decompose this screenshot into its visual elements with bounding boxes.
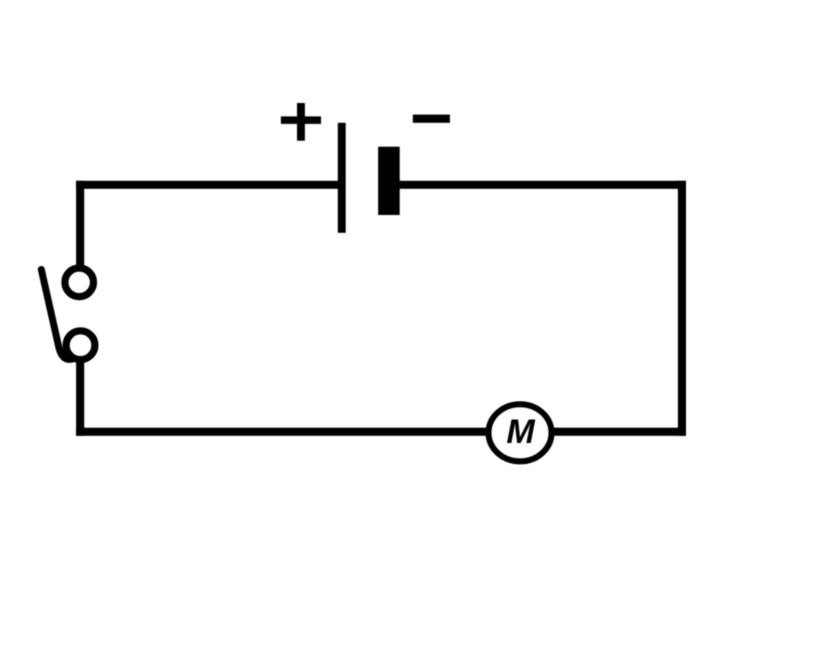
wire top-right horizontal (battery - terminal to right wire) <box>396 181 686 189</box>
switch S1 top contact circle <box>65 268 94 297</box>
battery B1 positive plate (long thin) <box>338 123 346 233</box>
battery label + (plus sign) <box>281 116 321 124</box>
switch S1 lever arm <box>41 270 72 360</box>
wire left vertical upper (to switch top contact) <box>76 181 84 270</box>
svg-text:M: M <box>506 413 535 451</box>
battery label - (minus sign) <box>413 115 450 123</box>
motor M1 circle <box>489 404 552 461</box>
battery B1 negative plate (short thick) <box>378 147 400 215</box>
wire top-left horizontal (battery + terminal to left wire) <box>76 181 341 189</box>
switch S1 bottom contact circle <box>66 331 95 360</box>
wire right vertical <box>678 181 686 436</box>
wire bottom horizontal (through motor M) <box>76 428 686 436</box>
wire left vertical lower (switch bottom contact to bottom wire) <box>76 357 84 436</box>
